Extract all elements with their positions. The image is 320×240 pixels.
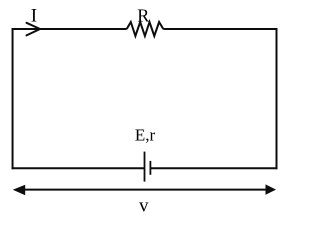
svg-text:v: v: [139, 196, 149, 213]
right arrowhead of v arrow: [266, 184, 277, 194]
svg-text:R: R: [137, 6, 149, 26]
svg-text:E,r: E,r: [135, 126, 156, 145]
battery E,r : long plate: [144, 152, 146, 182]
wire: bottom right segment (battery short plate to corner): [150, 167, 277, 169]
wire: left vertical: [12, 28, 14, 169]
wire: top left segment (corner to resistor): [12, 28, 127, 30]
current direction arrowhead on top wire: [27, 23, 41, 36]
left arrowhead of v arrow: [13, 185, 25, 195]
wire: right vertical: [276, 28, 278, 169]
resistor R zigzag: [127, 22, 164, 36]
wire: top right segment (resistor to corner): [163, 28, 277, 30]
voltmeter span arrow shaft (double-headed): [22, 189, 268, 191]
svg-text:I: I: [31, 6, 37, 27]
wire: bottom left segment (corner to battery long plate): [12, 167, 145, 169]
battery E,r : short plate: [149, 161, 151, 175]
